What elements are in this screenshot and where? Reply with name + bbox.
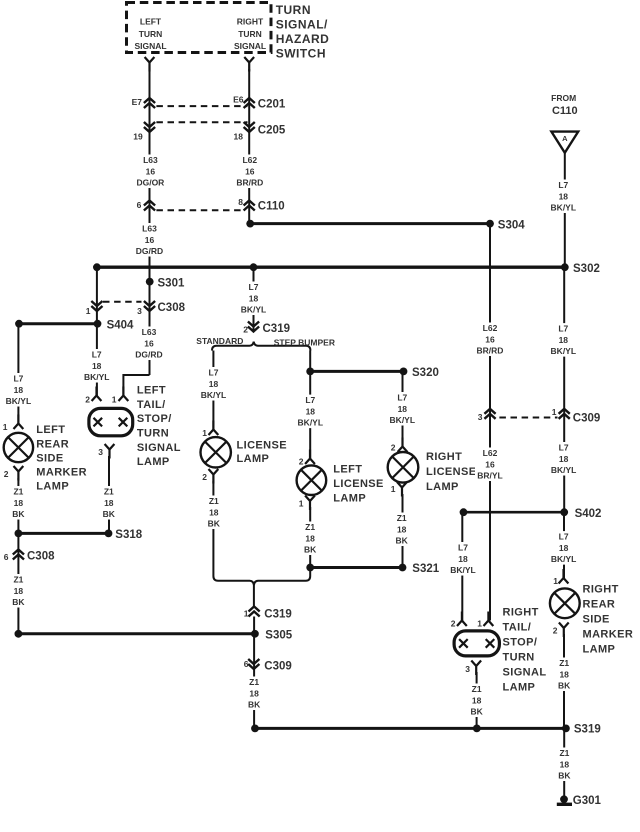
svg-text:L7: L7 [249, 282, 259, 292]
svg-text:L7: L7 [558, 180, 568, 190]
right marker lamp pin 2 [559, 623, 569, 638]
svg-text:18: 18 [559, 454, 569, 464]
wire label L7 18 BK/YL [549, 531, 579, 565]
splice S301 [146, 278, 154, 286]
splice S404 [94, 320, 102, 328]
svg-text:3: 3 [137, 306, 142, 316]
splice S318 [105, 530, 113, 538]
svg-text:REAR: REAR [36, 438, 69, 450]
svg-text:LAMP: LAMP [333, 493, 366, 505]
wire C319 to S319 line (Z1) [253, 617, 255, 730]
svg-text:18: 18 [458, 554, 468, 564]
svg-text:18: 18 [209, 507, 219, 517]
svg-text:S302: S302 [573, 263, 600, 275]
svg-text:BK: BK [12, 509, 25, 519]
svg-text:SIDE: SIDE [583, 613, 610, 625]
svg-text:C308: C308 [27, 551, 55, 563]
svg-text:A: A [562, 134, 568, 143]
svg-text:BK: BK [396, 536, 409, 546]
svg-text:L7: L7 [305, 395, 315, 405]
svg-text:S301: S301 [158, 277, 185, 289]
svg-text:8: 8 [238, 197, 243, 207]
svg-text:C201: C201 [258, 98, 286, 110]
wire bracket to C319 pin 1 [253, 585, 255, 607]
wire splice S319 link [255, 727, 566, 730]
wire label L7 18 BK/YL [239, 282, 269, 316]
wire to left marker lamp (L7) [17, 324, 19, 424]
svg-text:TAIL/: TAIL/ [503, 622, 532, 634]
connector C308 pin 6 [13, 550, 24, 560]
svg-text:RIGHT: RIGHT [426, 451, 462, 463]
svg-text:BK/YL: BK/YL [551, 203, 577, 213]
wire from A to S302 (L7) [564, 153, 566, 267]
svg-text:3: 3 [98, 447, 103, 457]
svg-text:2: 2 [202, 472, 207, 482]
svg-text:BK: BK [103, 509, 116, 519]
svg-text:L7: L7 [13, 374, 23, 384]
svg-text:Z1: Z1 [397, 513, 407, 523]
svg-text:L62: L62 [242, 155, 257, 165]
wire label Z1 18 BK [295, 522, 325, 556]
connector C205 dashed link [156, 121, 247, 123]
svg-text:BK/YL: BK/YL [551, 465, 577, 475]
svg-text:S320: S320 [412, 367, 439, 379]
left marker lamp pin 2 [14, 466, 24, 481]
svg-text:2: 2 [4, 469, 9, 479]
svg-text:LEFT: LEFT [333, 464, 362, 476]
lamp RIGHT TAIL/STOP/TURN SIGNAL LAMP [454, 631, 499, 656]
svg-text:18: 18 [560, 759, 570, 769]
left license lamp pin 1 [305, 496, 315, 511]
svg-text:18: 18 [559, 335, 569, 345]
svg-text:Z1: Z1 [249, 677, 259, 687]
switch right-turn output pin [244, 57, 254, 72]
wire step bumper branch (L7) [309, 351, 311, 460]
wire label L63 16 DG/OR [135, 155, 165, 189]
svg-text:STOP/: STOP/ [137, 413, 172, 425]
svg-text:6: 6 [137, 200, 142, 210]
splice S319 [562, 725, 570, 733]
svg-text:BK/YL: BK/YL [201, 390, 227, 400]
svg-text:L7: L7 [209, 368, 219, 378]
svg-text:LICENSE: LICENSE [333, 478, 383, 490]
svg-text:S304: S304 [498, 219, 525, 231]
svg-text:1: 1 [391, 484, 396, 494]
svg-text:BK: BK [558, 771, 571, 781]
connector C319 pin 2 [248, 322, 259, 332]
svg-text:1: 1 [86, 306, 91, 316]
wire right marker ground (Z1) [563, 634, 565, 728]
svg-text:SIGNAL: SIGNAL [234, 41, 266, 51]
lamp LEFT TAIL/STOP/TURN SIGNAL LAMP [89, 408, 133, 435]
svg-text:TURN: TURN [503, 652, 535, 664]
wire label L63 16 DG/RD [135, 223, 165, 257]
wire label Z1 18 BK [549, 658, 579, 692]
license lamp pin 1 [209, 421, 219, 436]
svg-text:S305: S305 [265, 629, 292, 641]
svg-text:18: 18 [559, 669, 569, 679]
svg-text:STANDARD: STANDARD [196, 336, 243, 346]
svg-text:1: 1 [3, 422, 8, 432]
svg-text:HAZARD: HAZARD [276, 32, 330, 46]
svg-text:18: 18 [397, 524, 407, 534]
svg-text:Z1: Z1 [559, 658, 569, 668]
connector C201 dashed link [156, 105, 247, 107]
lamp RIGHT REAR SIDE MARKER LAMP [550, 588, 580, 618]
svg-text:BK/YL: BK/YL [298, 418, 324, 428]
svg-text:MARKER: MARKER [36, 467, 87, 479]
wire splice S318 [18, 532, 108, 535]
wire label L7 18 BK/YL [548, 323, 578, 357]
svg-text:1: 1 [244, 608, 249, 618]
wire S402 to right marker (L7) [563, 512, 565, 578]
wire label L7 18 BK/YL [548, 180, 578, 214]
svg-text:S321: S321 [412, 563, 439, 575]
svg-text:LAMP: LAMP [503, 682, 536, 694]
connector C309 pin 1 [559, 409, 570, 419]
svg-text:SIGNAL: SIGNAL [137, 442, 181, 454]
wire left ground to S305 (Z1) [17, 533, 19, 633]
svg-text:BK: BK [12, 597, 25, 607]
wire splice S305 link [18, 632, 255, 635]
splice S302 [561, 263, 569, 271]
connector C110 pin 6 [144, 201, 155, 211]
svg-text:2: 2 [299, 457, 304, 467]
svg-text:LAMP: LAMP [426, 481, 459, 493]
svg-text:S319: S319 [574, 724, 601, 736]
svg-text:3: 3 [478, 412, 483, 422]
svg-text:18: 18 [305, 533, 315, 543]
svg-text:SIGNAL: SIGNAL [503, 667, 547, 679]
right marker lamp pin 1 [559, 569, 569, 584]
left marker lamp pin 1 [14, 415, 24, 430]
svg-text:BR/RD: BR/RD [477, 346, 504, 356]
wire tail lamp ground (Z1) [108, 456, 110, 533]
junction below C110 pin 8 [246, 220, 254, 228]
wire S319 to ground G301 (Z1) [563, 728, 565, 796]
svg-text:C308: C308 [158, 302, 186, 314]
svg-text:1: 1 [112, 395, 117, 405]
svg-text:1: 1 [477, 619, 482, 629]
svg-text:18: 18 [14, 586, 24, 596]
junction marker ground [15, 530, 23, 538]
svg-text:Z1: Z1 [209, 496, 219, 506]
svg-text:TAIL/: TAIL/ [137, 399, 166, 411]
svg-text:BK: BK [558, 681, 571, 691]
splice S305 [251, 630, 259, 638]
wire bus to C319 (L7) [253, 267, 255, 331]
svg-text:19: 19 [133, 131, 143, 141]
svg-text:SWITCH: SWITCH [276, 47, 326, 61]
svg-text:1: 1 [552, 407, 557, 417]
svg-text:L63: L63 [143, 155, 158, 165]
svg-text:16: 16 [144, 338, 154, 348]
svg-text:LEFT: LEFT [140, 17, 162, 27]
bus wire to splice S302 [97, 266, 565, 269]
svg-text:L7: L7 [559, 532, 569, 542]
right tail lamp pin 1 [484, 612, 494, 627]
svg-text:DG/RD: DG/RD [136, 246, 163, 256]
connector C308 pin 3 [144, 301, 155, 311]
svg-text:E7: E7 [132, 97, 143, 107]
svg-text:2: 2 [451, 619, 456, 629]
svg-text:18: 18 [14, 385, 24, 395]
right tail lamp pin 2 [457, 612, 467, 627]
svg-text:2: 2 [553, 626, 558, 636]
svg-text:BK: BK [470, 707, 483, 717]
svg-text:L62: L62 [483, 323, 498, 333]
svg-text:18: 18 [559, 191, 569, 201]
svg-text:6: 6 [244, 659, 249, 669]
connector C201 pin E6 [244, 98, 255, 108]
svg-text:BK/YL: BK/YL [551, 346, 577, 356]
svg-text:BR/RD: BR/RD [236, 178, 263, 188]
wire label L7 18 BK/YL [3, 373, 33, 407]
svg-text:DG/OR: DG/OR [136, 178, 164, 188]
splice S402 [560, 508, 568, 516]
svg-text:DG/RD: DG/RD [135, 350, 162, 360]
ground G301 [560, 795, 568, 803]
wire S304 to right tail pin 1 (L62) [489, 224, 491, 621]
wire splice S321 link [310, 566, 402, 569]
wire splice S402 link [464, 511, 565, 514]
wire jog to lamp pin 1 [123, 375, 149, 396]
wire splice S320 link [310, 370, 403, 373]
connector C319 pin 1 [249, 607, 260, 617]
wire label Z1 18 BK [239, 677, 269, 711]
junction to S321 [306, 564, 314, 572]
svg-text:18: 18 [559, 543, 569, 553]
right license lamp pin 1 [397, 482, 407, 497]
wire label Z1 18 BK [3, 486, 33, 520]
wire label Z1 18 BK [462, 684, 492, 718]
svg-text:BK/YL: BK/YL [551, 554, 577, 564]
wire bus to S404 [96, 267, 98, 324]
svg-text:C110: C110 [258, 200, 285, 212]
svg-text:LAMP: LAMP [137, 456, 170, 468]
svg-text:Z1: Z1 [305, 522, 315, 532]
svg-text:BK/YL: BK/YL [241, 305, 267, 315]
svg-text:2: 2 [391, 443, 396, 453]
svg-text:3: 3 [465, 664, 470, 674]
svg-text:TURN: TURN [238, 29, 262, 39]
svg-text:C205: C205 [258, 124, 286, 136]
license lamp pin 2 [209, 469, 219, 484]
svg-text:LEFT: LEFT [137, 385, 166, 397]
svg-text:BK: BK [248, 700, 261, 710]
svg-text:Z1: Z1 [559, 748, 569, 758]
lamp LEFT REAR SIDE MARKER LAMP [4, 433, 33, 462]
svg-text:1: 1 [202, 428, 207, 438]
svg-text:BK: BK [304, 545, 317, 555]
off-page connector A (from C110) [551, 132, 578, 153]
connector C205 pin 18 [244, 122, 255, 132]
svg-text:LAMP: LAMP [583, 643, 616, 655]
wire label L62 16 BR/YL [475, 448, 505, 482]
lamp LICENSE LAMP [201, 437, 231, 467]
svg-text:SIGNAL/: SIGNAL/ [276, 18, 328, 32]
junction bus left end [93, 263, 101, 271]
lamp RIGHT LICENSE LAMP [388, 452, 419, 483]
wire label L62 16 BR/RD [475, 323, 505, 357]
svg-text:BK/YL: BK/YL [6, 396, 32, 406]
svg-text:18: 18 [209, 379, 219, 389]
splice S320 [400, 368, 408, 376]
right tail lamp pin 3 [471, 661, 481, 676]
wire label Z1 18 BK [3, 574, 33, 608]
connector C309 pin 3 [484, 409, 495, 419]
svg-text:S318: S318 [115, 529, 142, 541]
svg-text:L63: L63 [142, 327, 157, 337]
svg-text:MARKER: MARKER [583, 628, 634, 640]
svg-text:2: 2 [85, 395, 90, 405]
svg-text:S404: S404 [107, 320, 134, 332]
svg-text:RIGHT: RIGHT [237, 17, 264, 27]
connector C308 pin 1 [91, 301, 102, 311]
svg-text:18: 18 [14, 498, 24, 508]
svg-text:E6: E6 [233, 94, 244, 104]
junction left ground to S305 [15, 630, 23, 638]
svg-text:LICENSE: LICENSE [237, 439, 287, 451]
wire left turn signal feed (L63) [149, 69, 151, 375]
svg-text:BK/YL: BK/YL [390, 415, 416, 425]
wire label L63 16 DG/RD lower [134, 327, 164, 361]
svg-text:RIGHT: RIGHT [503, 607, 539, 619]
svg-text:18: 18 [234, 131, 244, 141]
connector C205 pin 19 [144, 122, 155, 132]
svg-text:18: 18 [306, 406, 316, 416]
svg-text:L7: L7 [458, 543, 468, 553]
svg-text:16: 16 [245, 166, 255, 176]
wire right turn signal feed (L62) [248, 69, 250, 224]
wire label Z1 18 BK [387, 513, 417, 547]
left tail lamp pin 1 [119, 387, 129, 402]
connector C110 dashed link [156, 209, 244, 211]
svg-text:BK: BK [208, 519, 221, 529]
wire label Z1 18 BK [94, 486, 124, 520]
wire to right tail pin 2 (L7) [461, 512, 463, 620]
svg-text:C309: C309 [264, 661, 292, 673]
svg-text:18: 18 [249, 688, 259, 698]
svg-text:2: 2 [243, 325, 248, 335]
wire label L7 18 BK/YL [199, 367, 229, 401]
svg-text:Z1: Z1 [104, 487, 114, 497]
svg-text:S402: S402 [575, 508, 602, 520]
svg-text:18: 18 [104, 498, 114, 508]
svg-text:L7: L7 [558, 324, 568, 334]
wire to splice S304 [250, 222, 490, 225]
svg-text:16: 16 [145, 235, 155, 245]
left tail lamp pin 2 [92, 387, 102, 402]
svg-text:1: 1 [299, 499, 304, 509]
svg-text:BK/YL: BK/YL [84, 372, 110, 382]
wire left license ground (Z1) [309, 507, 311, 576]
wire right tail ground (Z1) [476, 672, 478, 728]
wire label L7 18 BK/YL [448, 542, 478, 576]
svg-text:16: 16 [146, 166, 156, 176]
merge bracket [213, 576, 310, 585]
svg-text:SIGNAL: SIGNAL [134, 41, 166, 51]
svg-text:18: 18 [92, 361, 102, 371]
svg-text:SIDE: SIDE [36, 452, 63, 464]
right license lamp pin 2 [398, 438, 408, 453]
svg-text:LAMP: LAMP [36, 481, 69, 493]
svg-text:L62: L62 [483, 448, 498, 458]
svg-text:16: 16 [485, 459, 495, 469]
svg-text:L7: L7 [92, 350, 102, 360]
junction center ground to S319 line [251, 725, 259, 733]
svg-text:Z1: Z1 [13, 487, 23, 497]
svg-text:LAMP: LAMP [237, 453, 270, 465]
left license lamp pin 2 [305, 450, 315, 465]
wire label L62 16 BR/RD [235, 155, 265, 189]
svg-text:16: 16 [485, 334, 495, 344]
svg-text:LICENSE: LICENSE [426, 466, 476, 478]
svg-text:BK/YL: BK/YL [450, 565, 476, 575]
wire S320 to right license (L7) [402, 371, 404, 447]
svg-text:C319: C319 [263, 323, 291, 335]
wire label L7 18 BK/YL [82, 349, 112, 383]
connector C201 pin E7 [144, 98, 155, 108]
svg-text:RIGHT: RIGHT [583, 583, 619, 595]
wire right license ground (Z1) [402, 494, 404, 568]
wire label L7 18 BK/YL [549, 442, 579, 476]
svg-text:TURN: TURN [137, 428, 169, 440]
splice S321 [399, 564, 407, 572]
wire label L7 18 BK/YL [387, 392, 417, 426]
svg-text:18: 18 [249, 293, 259, 303]
wire label Z1 18 BK [199, 496, 229, 530]
svg-text:REAR: REAR [583, 598, 616, 610]
svg-text:LEFT: LEFT [36, 424, 65, 436]
svg-text:L63: L63 [142, 224, 157, 234]
left tail lamp pin 3 [105, 444, 115, 459]
junction right tail pin 2 feed [460, 508, 468, 516]
splice S304 [486, 220, 494, 228]
junction right tail ground [473, 725, 481, 733]
wire marker lamp ground (Z1) [17, 478, 19, 533]
svg-text:6: 6 [4, 552, 9, 562]
svg-text:STEP BUMPER: STEP BUMPER [274, 338, 335, 348]
wire S302 to S402 (L7) [563, 267, 565, 512]
split bracket standard / step bumper [212, 342, 310, 351]
junction left marker branch [15, 320, 23, 328]
junction bus to C319 [250, 263, 258, 271]
wire label Z1 18 BK [549, 748, 579, 782]
wire S404 to tail lamp pin 2 (L7) [96, 324, 98, 396]
connector C309 dashed link [499, 417, 557, 419]
turn signal / hazard switch box [127, 3, 272, 53]
connector C308 dashed link [103, 301, 142, 303]
wire label L7 18 BK/YL [295, 395, 325, 429]
svg-text:C309: C309 [573, 412, 601, 424]
svg-text:L7: L7 [397, 393, 407, 403]
lamp LEFT LICENSE LAMP [297, 465, 327, 495]
svg-text:C319: C319 [264, 608, 292, 620]
svg-text:18: 18 [472, 695, 482, 705]
junction to S320 [306, 368, 314, 376]
svg-text:1: 1 [553, 576, 558, 586]
svg-text:Z1: Z1 [472, 684, 482, 694]
svg-text:TURN: TURN [276, 3, 311, 17]
svg-text:G301: G301 [573, 795, 602, 807]
svg-text:C110: C110 [552, 105, 578, 117]
svg-text:STOP/: STOP/ [503, 637, 538, 649]
svg-text:FROM: FROM [551, 93, 576, 103]
wire standard branch (L7) [212, 351, 214, 431]
connector C110 pin 8 [244, 201, 255, 211]
wire S404 to left marker branch [19, 322, 98, 325]
